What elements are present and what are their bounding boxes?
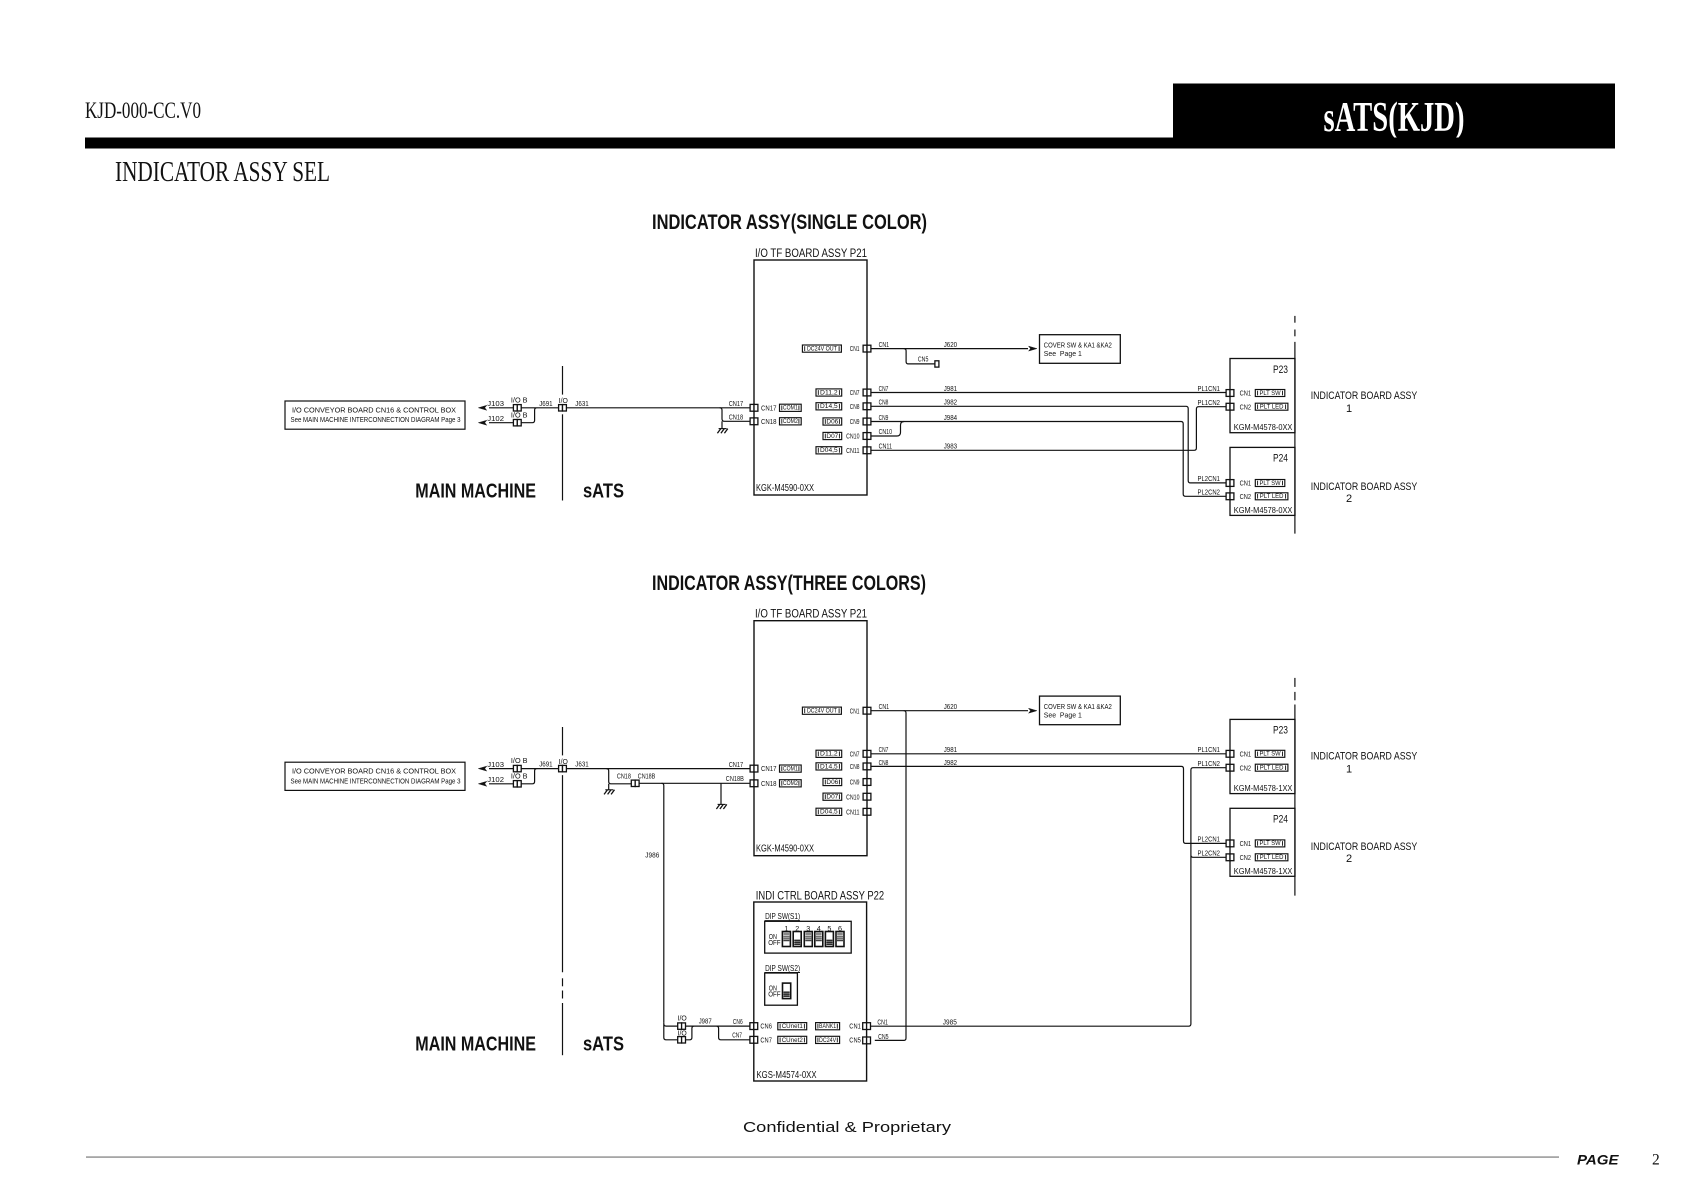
value label DC24V (P22) [816, 1036, 840, 1043]
svg-text:J691: J691 [539, 760, 552, 769]
wire J102 segment (d2) [489, 783, 513, 785]
svg-text:PLT LED: PLT LED [1260, 404, 1284, 411]
svg-text:J983: J983 [944, 442, 957, 451]
indicator board P24 (d2) box [1230, 808, 1295, 876]
svg-text:CN5: CN5 [918, 355, 929, 364]
svg-text:D06: D06 [826, 779, 838, 786]
svg-text:CN5: CN5 [878, 1032, 889, 1041]
svg-text:PLT LED: PLT LED [1260, 493, 1284, 500]
svg-text:CN11: CN11 [846, 446, 859, 455]
inline connector I/O at machine boundary (d2) [559, 765, 563, 771]
svg-text:D04,5: D04,5 [820, 447, 838, 454]
wire stub to CN5 (d1) [904, 349, 935, 364]
svg-text:CN2: CN2 [1240, 765, 1251, 772]
svg-text:CN8: CN8 [879, 758, 889, 767]
svg-text:CN9: CN9 [879, 413, 889, 422]
value label PLT SW (P23 (d2)) [1255, 750, 1285, 757]
connector CN6 of P22 [750, 1023, 754, 1030]
svg-text:INDICATOR ASSY(SINGLE COLOR): INDICATOR ASSY(SINGLE COLOR) [652, 211, 927, 234]
svg-text:CN17: CN17 [761, 403, 777, 412]
connector CN1 of P23 (d1) [1226, 390, 1230, 397]
header: black title banner [1173, 84, 1615, 149]
wire J981 CN7 to PL1CN1 (d1) [871, 392, 1226, 394]
svg-text:D11,2: D11,2 [820, 751, 838, 758]
DIP S1 switch 1 (ON) [782, 932, 790, 947]
svg-text:CN18: CN18 [729, 413, 744, 422]
connector CN11 of I/O TF board (d1) [863, 447, 867, 454]
value label D07 (d1) [823, 432, 842, 439]
connector CN1 of P23 (d2) [1226, 750, 1230, 757]
svg-text:J986: J986 [645, 851, 659, 860]
svg-text:J982: J982 [944, 758, 957, 767]
svg-text:D07: D07 [826, 433, 838, 440]
connector CN9 of I/O TF board (d1) [863, 418, 867, 425]
svg-text:KJD-000-CC.V0: KJD-000-CC.V0 [85, 98, 201, 123]
DIP S1 switch 5 (OFF) [825, 932, 833, 947]
machine boundary line (d1) [562, 366, 564, 395]
svg-text:DIP SW(S2): DIP SW(S2) [765, 964, 800, 973]
svg-text:PL1CN1: PL1CN1 [1198, 386, 1221, 393]
inline connector I/O B upper (d1) [513, 405, 517, 411]
svg-text:CN5: CN5 [849, 1035, 861, 1044]
reference box COVER SW KA1 KA2 (d2) [1040, 696, 1121, 725]
wire J982 CN8 to PL2CN1 (d1) [871, 406, 1226, 483]
svg-text:CN10: CN10 [846, 792, 859, 801]
value label DC24V OUT (d2) [802, 707, 841, 714]
value label BANK1 (P22) [816, 1023, 840, 1030]
svg-text:See Page 1: See Page 1 [1044, 349, 1082, 358]
svg-text:P23: P23 [1273, 364, 1288, 376]
svg-text:J102: J102 [487, 414, 504, 423]
svg-text:CN1: CN1 [879, 702, 890, 711]
I/O TF board assy P21 box (three colors) [754, 621, 867, 856]
svg-text:CUnet2: CUnet2 [782, 1037, 803, 1044]
I/O conveyor board reference box (d1) [285, 401, 465, 429]
connector CN2 of P24 (d1) [1226, 493, 1230, 500]
svg-text:PL2CN2: PL2CN2 [1198, 490, 1221, 497]
wire J984 CN9 to PL2CN2 (d1) [871, 422, 1226, 497]
svg-text:D14,5: D14,5 [820, 403, 838, 410]
svg-text:KGS-M4574-0XX: KGS-M4574-0XX [757, 1070, 817, 1081]
inline connector I/O lower (J987) [678, 1037, 682, 1043]
svg-text:PL1CN2: PL1CN2 [1198, 400, 1221, 407]
footer rule [86, 1156, 1559, 1158]
svg-text:I/O CONVEYOR BOARD CN16 & CONT: I/O CONVEYOR BOARD CN16 & CONTROL BOX [292, 769, 456, 776]
indicator assy boundary dashed line (d1) [1294, 316, 1296, 323]
connector CN1 of I/O TF board (d2) [863, 707, 867, 714]
DIP S1 switch 2 (OFF) [793, 932, 801, 947]
svg-text:INDICATOR BOARD ASSY: INDICATOR BOARD ASSY [1311, 481, 1418, 493]
machine boundary line (d2) [562, 727, 564, 755]
value label PLT LED (P24 (d2)) [1255, 854, 1288, 861]
wire J103 segment (d1) [489, 407, 513, 409]
svg-text:PLT SW: PLT SW [1259, 480, 1281, 487]
svg-text:D11,2: D11,2 [820, 389, 838, 396]
inline connector I/O B lower (d2) [513, 781, 517, 787]
value label PLT LED (P23 (d1)) [1255, 403, 1288, 410]
svg-text:CN7: CN7 [850, 749, 860, 758]
svg-text:DC24V OUT: DC24V OUT [807, 708, 837, 715]
value label PLT SW (P24 (d2)) [1255, 840, 1285, 847]
svg-text:CN2: CN2 [1240, 855, 1251, 862]
svg-text:INDICATOR BOARD ASSY: INDICATOR BOARD ASSY [1311, 750, 1418, 762]
svg-text:CN18: CN18 [761, 779, 777, 788]
connector CN2 of P23 (d2) [1226, 764, 1230, 771]
svg-text:CN8: CN8 [850, 762, 860, 771]
wire J631 to CN17 (d2) [566, 768, 750, 770]
connector CN1 of P24 (d2) [1226, 840, 1230, 847]
svg-text:CN9: CN9 [850, 417, 860, 426]
svg-text:PLT SW: PLT SW [1259, 840, 1281, 847]
svg-text:CN1: CN1 [879, 340, 890, 349]
svg-text:PAGE: PAGE [1577, 1151, 1619, 1167]
svg-text:COM2: COM2 [783, 780, 798, 787]
connector CN17 of I/O TF board (d1) [750, 404, 754, 411]
connector CN1 of P22 [863, 1023, 867, 1030]
arrow to conveyor box J102 (d1) [478, 420, 487, 425]
wire J631 to CN17 (d1) [566, 407, 750, 409]
svg-text:DC24V OUT: DC24V OUT [807, 346, 837, 353]
svg-text:OFF: OFF [768, 992, 780, 999]
svg-text:CN7: CN7 [760, 1035, 772, 1044]
svg-text:sATS(KJD): sATS(KJD) [1324, 94, 1465, 141]
svg-text:CN18B: CN18B [726, 774, 744, 783]
svg-text:CN6: CN6 [733, 1017, 743, 1026]
svg-text:CN10: CN10 [846, 432, 859, 441]
svg-text:J620: J620 [944, 702, 957, 711]
inline connector I/O at machine boundary (d1) [559, 405, 563, 411]
wire J985 from CN1 of P22 up to PL1CN2/PL2CN2 [871, 768, 1227, 1026]
svg-text:J987: J987 [699, 1016, 712, 1025]
connector CN2 of P23 (d1) [1226, 403, 1230, 410]
svg-text:CN17: CN17 [729, 760, 744, 769]
indicator board P24 (d1) box [1230, 447, 1295, 515]
inline connector CN18/CN18B (d2) [631, 780, 635, 786]
connector CN11 of I/O TF board (d2) [863, 808, 867, 815]
DIP switch S2 box [765, 973, 798, 1005]
svg-text:CN7: CN7 [732, 1031, 742, 1040]
svg-text:CN11: CN11 [879, 442, 892, 451]
svg-text:CN1: CN1 [849, 1022, 861, 1031]
svg-text:D07: D07 [826, 794, 838, 801]
connector CN18 of I/O TF board (d2) [750, 780, 754, 787]
connector CN17 of I/O TF board (d2) [750, 765, 754, 772]
svg-text:OFF: OFF [768, 940, 780, 947]
svg-text:J981: J981 [944, 745, 957, 754]
svg-text:2: 2 [1346, 493, 1352, 505]
svg-text:COM2: COM2 [783, 418, 798, 425]
svg-text:I/O B: I/O B [511, 395, 528, 404]
value label COM1 (d2) [780, 765, 802, 772]
I/O conveyor board reference box (d2) [285, 762, 465, 790]
wire J620 from CN1 (d1) [871, 348, 1028, 350]
ground at left branch (d2) [608, 784, 610, 790]
value label D11,2 (d2) [816, 750, 842, 757]
svg-text:1: 1 [1346, 403, 1352, 415]
wire J982 CN8 to PL2CN1 (d2) [871, 766, 1226, 843]
svg-text:See Page 1: See Page 1 [1044, 710, 1082, 719]
svg-text:D04,5: D04,5 [820, 809, 838, 816]
svg-text:CN7: CN7 [879, 745, 889, 754]
svg-text:See MAIN MACHINE INTERCONNECTI: See MAIN MACHINE INTERCONNECTION DIAGRAM… [291, 778, 461, 785]
ground mid branch (d2) [720, 783, 722, 804]
value label CUnet2 (P22) [778, 1036, 807, 1043]
svg-text:I/O TF BOARD ASSY P21: I/O TF BOARD ASSY P21 [755, 609, 867, 621]
svg-text:CN11: CN11 [846, 807, 859, 816]
svg-text:PLT SW: PLT SW [1259, 390, 1281, 397]
indicator board P23 (d1) box [1230, 359, 1295, 433]
value label DC24V OUT (d1) [802, 345, 841, 352]
ground at CN18 branch (d1) [721, 421, 723, 428]
value label D04,5 (d1) [816, 447, 842, 454]
DIP S1 switch 6 (ON) [836, 932, 844, 947]
DIP S1 switch 3 (ON) [804, 932, 812, 947]
value label D06 (d2) [823, 778, 842, 785]
value label D14,5 (d2) [816, 763, 842, 770]
value label PLT SW (P23 (d1)) [1255, 390, 1285, 397]
svg-text:PLT LED: PLT LED [1260, 854, 1284, 861]
wire J620 from CN1 (d2) [871, 710, 1028, 712]
svg-text:J984: J984 [944, 413, 957, 422]
svg-text:sATS: sATS [583, 1033, 624, 1056]
connector CN8 of I/O TF board (d1) [863, 403, 867, 410]
svg-text:CN17: CN17 [729, 399, 744, 408]
svg-text:J620: J620 [944, 340, 957, 349]
svg-text:D14,5: D14,5 [820, 763, 838, 770]
svg-text:I/O: I/O [559, 396, 568, 405]
connector CN10 of I/O TF board (d2) [863, 793, 867, 800]
svg-text:D06: D06 [826, 418, 838, 425]
svg-text:COM1: COM1 [783, 766, 798, 773]
svg-text:Confidential & Proprietary: Confidential & Proprietary [743, 1120, 952, 1136]
inline connector I/O upper (J987) [678, 1023, 682, 1029]
svg-text:PL2CN2: PL2CN2 [1198, 851, 1221, 858]
svg-text:PL2CN1: PL2CN1 [1198, 837, 1221, 844]
svg-text:KGM-M4578-1XX: KGM-M4578-1XX [1234, 866, 1293, 876]
svg-text:I/O: I/O [678, 1029, 687, 1038]
svg-text:I/O: I/O [559, 757, 568, 766]
svg-text:J691: J691 [539, 399, 552, 408]
svg-text:INDICATOR ASSY(THREE COLORS): INDICATOR ASSY(THREE COLORS) [652, 572, 926, 595]
svg-text:PLT LED: PLT LED [1260, 765, 1284, 772]
svg-text:KGK-M4590-0XX: KGK-M4590-0XX [756, 844, 814, 855]
connector CN5 of P22 [863, 1037, 867, 1044]
svg-text:P24: P24 [1273, 453, 1288, 465]
inline connector I/O B lower (d1) [513, 420, 517, 426]
svg-text:I/O CONVEYOR BOARD CN16 & CONT: I/O CONVEYOR BOARD CN16 & CONTROL BOX [292, 408, 456, 415]
svg-text:KGM-M4578-0XX: KGM-M4578-0XX [1234, 422, 1293, 432]
svg-text:J982: J982 [944, 398, 957, 407]
svg-text:CN1: CN1 [877, 1018, 888, 1027]
svg-text:CN9: CN9 [850, 778, 860, 787]
value label PLT LED (P24 (d1)) [1255, 493, 1288, 500]
wire branch down to CN18 level with ground (d2) [606, 769, 631, 784]
wire J983 CN11 to PL1CN2 (d1) [871, 407, 1226, 451]
svg-text:INDICATOR BOARD ASSY: INDICATOR BOARD ASSY [1311, 390, 1418, 402]
arrow to conveyor box J102 (d2) [478, 781, 487, 786]
svg-text:I/O TF BOARD ASSY P21: I/O TF BOARD ASSY P21 [755, 248, 867, 260]
I/O TF board assy P21 box (single color) [754, 260, 867, 495]
wire J981 CN7 to PL1CN1 (d2) [871, 753, 1226, 755]
reference box COVER SW KA1 KA2 (d1) [1040, 335, 1121, 364]
connector CN2 of P24 (d2) [1226, 854, 1230, 861]
value label COM1 (d1) [780, 404, 802, 411]
svg-text:I/O B: I/O B [511, 771, 528, 780]
svg-text:CN8: CN8 [879, 398, 889, 407]
svg-text:CN6: CN6 [760, 1022, 772, 1031]
svg-text:CN18: CN18 [761, 417, 777, 426]
svg-text:J103: J103 [487, 760, 504, 769]
svg-text:1: 1 [1346, 763, 1352, 775]
value label D07 (d2) [823, 793, 842, 800]
svg-text:CN1: CN1 [1240, 841, 1251, 848]
indicator board P23 (d2) box [1230, 719, 1295, 793]
value label COM2 (d2) [780, 780, 802, 787]
svg-text:CN2: CN2 [1240, 494, 1251, 501]
svg-text:I/O B: I/O B [511, 756, 528, 765]
svg-text:KGK-M4590-0XX: KGK-M4590-0XX [756, 483, 814, 494]
svg-text:sATS: sATS [583, 480, 624, 503]
svg-text:CN18B: CN18B [638, 771, 656, 780]
svg-text:CN17: CN17 [761, 764, 777, 773]
inline connector I/O B upper (d2) [513, 765, 517, 771]
wire J986 elbow to CN6 branch (d2) [664, 1022, 678, 1040]
svg-text:CN18: CN18 [617, 771, 631, 780]
svg-text:INDICATOR BOARD ASSY: INDICATOR BOARD ASSY [1311, 841, 1418, 853]
connector CN10 of I/O TF board (d1) [863, 433, 867, 440]
svg-text:COM1: COM1 [783, 405, 798, 412]
connector CN18 of I/O TF board (d1) [750, 418, 754, 425]
svg-text:DC24V: DC24V [819, 1037, 837, 1044]
value label PLT SW (P24 (d1)) [1255, 480, 1285, 487]
svg-text:P24: P24 [1273, 814, 1288, 826]
DIP switch S1 box [765, 921, 852, 953]
wire J103 segment (d2) [489, 768, 513, 770]
svg-text:CN7: CN7 [879, 384, 889, 393]
wire branch to CN18 and ground (d1) [720, 408, 751, 422]
svg-text:J103: J103 [487, 399, 504, 408]
svg-text:CN1: CN1 [850, 344, 860, 353]
svg-text:J985: J985 [943, 1018, 957, 1027]
svg-text:I/O: I/O [678, 1013, 687, 1022]
svg-text:INDI CTRL BOARD ASSY P22: INDI CTRL BOARD ASSY P22 [756, 891, 884, 903]
svg-text:J631: J631 [575, 399, 588, 408]
arrow to conveyor box J103 (d2) [478, 766, 487, 771]
svg-text:CN7: CN7 [850, 388, 860, 397]
connector CN7 of P22 [750, 1036, 754, 1043]
svg-text:J102: J102 [487, 775, 504, 784]
svg-text:2: 2 [1346, 853, 1352, 865]
wire J102 segment (d1) [489, 422, 513, 424]
svg-text:INDICATOR ASSY SEL: INDICATOR ASSY SEL [115, 156, 330, 188]
wire CN18B to board with J986 branch and ground (d2) [639, 782, 750, 784]
svg-text:MAIN MACHINE: MAIN MACHINE [415, 1033, 536, 1056]
connector CN7 of I/O TF board (d1) [863, 389, 867, 396]
connector CN8 of I/O TF board (d2) [863, 763, 867, 770]
connector CN5 stub terminal (d1) [935, 361, 939, 367]
svg-text:CUnet1: CUnet1 [782, 1023, 803, 1030]
connector CN9 of I/O TF board (d2) [863, 779, 867, 786]
value label CUnet1 (P22) [778, 1023, 807, 1030]
header: thick rule [85, 138, 1615, 149]
arrow to conveyor box J103 (d1) [478, 405, 487, 410]
svg-text:2: 2 [1652, 1151, 1660, 1168]
svg-text:P23: P23 [1273, 725, 1288, 737]
connector CN7 of I/O TF board (d2) [863, 750, 867, 757]
value label D04,5 (d2) [816, 808, 842, 815]
wire branch J986 down (d2) [662, 783, 664, 1022]
indicator assy boundary dashed line (d2) [1294, 678, 1296, 687]
svg-text:CN10: CN10 [879, 427, 892, 436]
svg-text:PL2CN1: PL2CN1 [1198, 476, 1221, 483]
connector CN1 of I/O TF board (d1) [863, 345, 867, 352]
value label D06 (d1) [823, 418, 842, 425]
svg-text:KGM-M4578-1XX: KGM-M4578-1XX [1234, 783, 1293, 793]
svg-text:CN2: CN2 [1240, 404, 1251, 411]
wire J987 bundle merge and split to CN6/CN7 [686, 1026, 751, 1040]
DIP S2 switch (OFF) [783, 983, 791, 999]
svg-text:PL1CN2: PL1CN2 [1198, 761, 1221, 768]
svg-text:J631: J631 [575, 760, 588, 769]
value label PLT LED (P23 (d2)) [1255, 764, 1288, 771]
svg-text:CN1: CN1 [1240, 481, 1251, 488]
INDI CTRL board assy P22 box [754, 902, 867, 1081]
value label D14,5 (d1) [816, 403, 842, 410]
connector CN1 of P24 (d1) [1226, 480, 1230, 487]
value label COM2 (d1) [780, 418, 802, 425]
wire CN10 stub joining J984 (d1) [871, 422, 904, 437]
DIP S1 switch 4 (ON) [815, 932, 823, 947]
wire J691 merge (d2) [521, 769, 558, 784]
svg-text:MAIN MACHINE: MAIN MACHINE [415, 480, 536, 503]
svg-text:CN1: CN1 [850, 706, 860, 715]
svg-text:See MAIN MACHINE INTERCONNECTI: See MAIN MACHINE INTERCONNECTION DIAGRAM… [291, 417, 461, 424]
svg-text:PLT SW: PLT SW [1259, 751, 1281, 758]
value label D11,2 (d1) [816, 389, 842, 396]
svg-text:J981: J981 [944, 384, 957, 393]
svg-text:CN1: CN1 [1240, 391, 1251, 398]
wire J691 merge (d1) [521, 408, 558, 423]
svg-text:I/O B: I/O B [511, 410, 528, 419]
svg-text:CN1: CN1 [1240, 751, 1251, 758]
svg-text:CN8: CN8 [850, 402, 860, 411]
svg-text:BANK1: BANK1 [819, 1023, 836, 1030]
wire DC24V branch down to CN5 of P22 (d2) [875, 711, 906, 1041]
svg-text:KGM-M4578-0XX: KGM-M4578-0XX [1234, 505, 1293, 515]
svg-text:DIP SW(S1): DIP SW(S1) [765, 912, 800, 921]
svg-text:PL1CN1: PL1CN1 [1198, 747, 1221, 754]
